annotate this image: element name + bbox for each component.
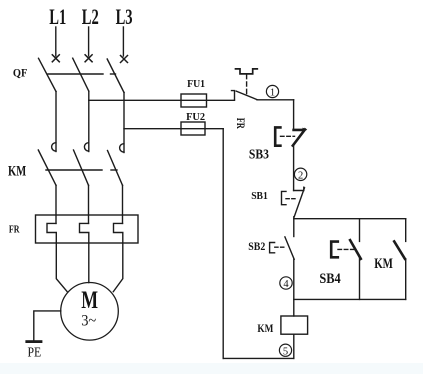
svg-text:KM: KM — [374, 256, 393, 272]
wire FU2 feed from pole3 — [124, 128, 223, 130]
contactor KM linkage dash — [111, 169, 117, 171]
wire SB3 to SB1 — [293, 146, 295, 191]
breaker QF linkage dash — [111, 73, 116, 75]
wire SB2 to KM coil — [293, 259, 295, 316]
svg-text:FR: FR — [234, 118, 248, 129]
wire QF pole3 to KM contact — [123, 93, 125, 153]
wire KM pole2 to FR heater — [88, 185, 90, 223]
svg-text:L1: L1 — [49, 4, 66, 29]
button SB3 blade arrow tip — [303, 128, 308, 132]
button SB4 cap bracket — [331, 242, 338, 258]
wire left control rail — [222, 129, 224, 359]
svg-text:2: 2 — [298, 170, 303, 181]
coil KM box — [281, 316, 308, 334]
svg-text:PE: PE — [28, 345, 42, 360]
svg-text:5: 5 — [283, 346, 288, 357]
wire KM coil to bottom rail — [293, 334, 295, 358]
contactor KM pole2 fixed-contact arc — [84, 143, 88, 151]
button SB4 branch lower wire — [359, 259, 361, 300]
bottom scan band — [0, 363, 423, 374]
wire FR contact to corner — [257, 99, 294, 101]
QF pole1 terminal cross — [52, 55, 59, 62]
svg-text:SB2: SB2 — [248, 241, 265, 253]
fuse FU1 — [181, 94, 207, 107]
dashed link FR actuator to contact — [246, 75, 248, 97]
button SB4 blade — [350, 240, 361, 259]
button SB3 cap bracket — [275, 127, 280, 145]
wire FR to motor V — [88, 243, 90, 283]
contactor KM aux contact blade — [394, 241, 405, 258]
svg-text:FU1: FU1 — [187, 79, 205, 90]
svg-text:QF: QF — [13, 65, 28, 79]
wire branch bottom rail — [294, 298, 406, 300]
wire QF pole2 to KM contact — [88, 91, 90, 151]
svg-text:1: 1 — [270, 88, 275, 99]
wire KM pole1 to FR heater — [55, 185, 57, 223]
contactor KM aux branch upper wire — [405, 219, 407, 242]
QF pole2 terminal cross — [85, 55, 92, 62]
node 1 circle — [266, 85, 278, 97]
thermal relay FR heater2 — [80, 223, 89, 243]
contactor KM aux branch lower wire — [405, 259, 407, 300]
wire QF pole1 to KM contact — [55, 92, 57, 152]
button SB1 cap bracket — [282, 191, 287, 204]
svg-text:FR: FR — [9, 224, 20, 235]
svg-text:M: M — [81, 285, 98, 314]
contactor KM pole3 fixed-contact arc — [120, 144, 124, 152]
svg-text:SB1: SB1 — [251, 190, 268, 202]
contactor KM pole1 blade — [38, 150, 56, 185]
fuse FU2 — [181, 122, 205, 135]
dashed link SB4 — [338, 248, 355, 250]
breaker QF pole2 blade — [73, 58, 89, 91]
dashed link SB3 — [281, 135, 295, 137]
wire FU1 feed from pole2 — [89, 99, 235, 101]
dashed link SB2 — [275, 246, 286, 248]
contactor KM pole3 blade — [108, 151, 123, 186]
wire L3 lead-in — [122, 27, 124, 56]
button SB1 top jog — [294, 187, 304, 190]
motor M1 circle — [61, 283, 119, 341]
wire FR to motor W — [113, 243, 123, 292]
wire KM pole3 to FR heater — [122, 185, 124, 223]
svg-text:KM: KM — [8, 164, 26, 180]
dashed link SB1 — [286, 198, 297, 200]
wire motor to earth — [34, 311, 61, 340]
node 5 circle — [279, 344, 291, 356]
button SB2 cap bracket — [270, 243, 275, 253]
thermal relay FR box — [36, 215, 139, 243]
svg-text:SB4: SB4 — [319, 271, 341, 287]
button SB3 blade — [293, 130, 305, 146]
breaker QF linkage bar — [48, 73, 103, 75]
wire branch top rail — [294, 218, 406, 220]
contactor KM linkage bar — [46, 169, 102, 171]
wire SB1 to SB2 — [293, 217, 295, 237]
contactor KM pole2 blade — [74, 150, 89, 185]
wire L1 lead-in — [55, 27, 57, 56]
svg-text:4: 4 — [283, 279, 289, 290]
thermal relay FR trip actuator — [236, 69, 258, 74]
svg-text:3~: 3~ — [81, 313, 96, 330]
button SB2 blade — [285, 237, 294, 259]
breaker QF pole3 blade — [107, 59, 124, 93]
button SB1 blade — [294, 188, 304, 217]
thermal relay FR heater3 — [114, 223, 123, 243]
wire FR to motor U — [56, 243, 67, 292]
thermal relay FR heater1 — [47, 223, 56, 243]
ground PE bar — [25, 340, 42, 343]
node 2 circle — [294, 168, 306, 180]
button SB4 branch upper wire — [359, 219, 361, 242]
FR NC contact stop tick — [232, 91, 235, 100]
svg-text:SB3: SB3 — [249, 147, 269, 162]
node 4 circle — [280, 277, 292, 289]
svg-text:L3: L3 — [116, 4, 133, 29]
wire L2 lead-in — [88, 27, 90, 56]
wire corner down to SB3 — [293, 100, 295, 129]
FR NC contact blade — [236, 91, 257, 100]
breaker QF pole1 blade — [39, 58, 57, 91]
svg-text:L2: L2 — [82, 4, 99, 29]
svg-text:KM: KM — [257, 321, 273, 335]
contactor KM pole1 fixed-contact arc — [52, 143, 56, 151]
QF pole3 terminal cross — [121, 56, 128, 63]
wire bottom return — [223, 357, 294, 359]
